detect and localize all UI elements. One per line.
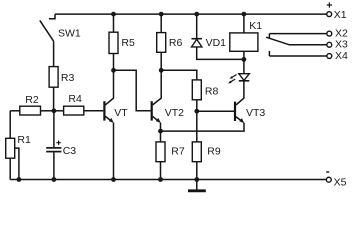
wire R5 junction to VT2 base [114,70,151,111]
ground [188,180,206,191]
svg-text:R3: R3 [61,72,75,84]
svg-text:R8: R8 [205,85,219,97]
junction R6 / VT2 collector / R8 [159,68,164,73]
resistor R9 [192,111,221,179]
wire bottom rail [10,179,326,181]
capacitor C3 [46,111,76,180]
resistor R2 [10,94,54,115]
switch SW1 [40,14,81,67]
svg-text:R5: R5 [121,37,135,49]
svg-text:R1: R1 [17,134,31,146]
svg-text:VT2: VT2 [165,107,184,119]
svg-text:R9: R9 [207,146,221,158]
node A (R2/R3/R4/C3 junction) [52,108,57,113]
junction R6 / top rail [159,12,164,17]
terminal X1 [327,2,347,21]
relay K1 coil [230,14,263,59]
terminal X2 [327,28,348,40]
svg-text:R4: R4 [68,93,82,105]
wire emitter bus to VT3 [161,123,245,131]
LED HL1 [228,59,249,105]
relay contact: X2 fixed [269,34,327,39]
svg-text:SW1: SW1 [58,27,81,39]
svg-text:X1: X1 [334,9,347,21]
svg-text:VT3: VT3 [246,107,265,119]
svg-text:R7: R7 [171,146,185,158]
resistor R5 [109,14,135,70]
junction R9 / bottom rail / ground [194,177,199,182]
svg-text:VD1: VD1 [206,37,227,49]
svg-text:VT: VT [114,107,128,119]
junction K1 / top rail [242,12,247,17]
junction R1 tap / bottom rail [17,177,22,182]
relay contact: X4 fixed [269,51,327,56]
terminal X5 [326,172,346,188]
wire top rail [55,13,327,15]
transistor VT2 [152,70,184,131]
resistor R3 [49,67,74,111]
resistor R6 [157,14,183,70]
terminal X3 [327,39,348,51]
resistor R1 (trimmer) [6,134,31,180]
junction R8 / R9 / VT3 base [194,109,199,114]
resistor R7 [156,131,185,179]
junction R5 / top rail [111,12,116,17]
svg-text:X2: X2 [335,28,348,40]
junction VD1 / top rail [194,12,199,17]
svg-text:X3: X3 [335,39,348,51]
wire R8 junction to VT3 base [197,110,234,112]
junction R5 / VT collector [111,68,116,73]
svg-text:R2: R2 [25,94,39,106]
transistor VT [104,70,128,179]
transistor VT3 [235,102,265,124]
relay contact blade to X3 [266,37,327,45]
diode VD1 [192,14,244,59]
wire left branch down [9,111,11,139]
svg-text:C3: C3 [63,145,77,157]
svg-text:X5: X5 [334,176,347,188]
junction C3 / bottom rail [52,177,57,182]
wire R6 junction to R8 [161,70,197,80]
resistor R8 [192,80,218,111]
junction VD1 / K1 / LED [242,57,247,62]
junction R7 / bottom rail [158,177,163,182]
junction VT emitter / bottom rail [111,177,116,182]
terminal X4 [327,50,348,62]
svg-text:R6: R6 [169,37,183,49]
svg-text:K1: K1 [249,20,262,32]
resistor R4 [54,93,103,115]
svg-text:X4: X4 [335,50,348,62]
junction VT2 emitter / R7 / emitter bus [158,129,163,134]
